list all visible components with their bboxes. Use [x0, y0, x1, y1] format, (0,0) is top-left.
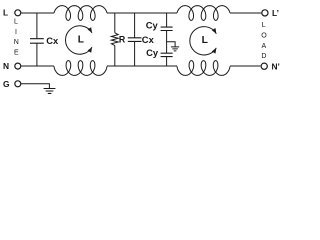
svg-text:O: O: [261, 33, 267, 40]
svg-text:E: E: [14, 50, 19, 57]
wire: [166, 13, 168, 27]
wire: [21, 65, 54, 67]
terminal L': [262, 10, 268, 16]
svg-text:N: N: [3, 61, 9, 71]
inductor winding L2 bottom: [177, 61, 230, 76]
svg-text:L: L: [202, 35, 208, 46]
terminal N': [261, 63, 267, 69]
capacitor Cx1: [30, 39, 44, 44]
capacitor Cy upper: [161, 27, 173, 30]
svg-text:L: L: [3, 8, 8, 18]
inductor winding L1 bottom: [54, 61, 107, 76]
wire: [21, 12, 54, 14]
ground (G): [44, 89, 56, 94]
svg-text:L: L: [14, 18, 18, 25]
inductor winding L2 top: [177, 6, 230, 21]
svg-text:I: I: [15, 29, 17, 36]
svg-text:A: A: [262, 43, 267, 50]
wire: [166, 31, 168, 54]
svg-text:L: L: [262, 22, 266, 29]
wire: [36, 13, 38, 39]
capacitor Cx2: [128, 38, 142, 42]
wire: [230, 65, 260, 67]
svg-text:D: D: [261, 53, 266, 60]
svg-text:L’: L’: [272, 8, 279, 18]
svg-text:G: G: [3, 79, 10, 89]
wire: [134, 41, 136, 66]
svg-text:N: N: [14, 39, 19, 46]
svg-text:N’: N’: [272, 62, 280, 72]
terminal L: [15, 10, 21, 16]
wire to ground: [167, 42, 176, 47]
wire: [134, 13, 136, 38]
terminal N: [15, 63, 21, 69]
wire bottom rail mid: [107, 65, 177, 67]
svg-text:Cx: Cx: [46, 35, 59, 46]
svg-text:L: L: [78, 34, 84, 45]
wire: [230, 12, 261, 14]
ground (Cy midpoint): [171, 47, 179, 51]
svg-text:Cx: Cx: [142, 34, 155, 45]
terminal G: [15, 81, 21, 87]
resistor R: [111, 33, 118, 46]
wire: [114, 13, 116, 33]
wire: [21, 84, 49, 89]
choke arrow L1: [66, 26, 92, 54]
choke arrow L2: [190, 27, 216, 55]
wire: [166, 57, 168, 66]
wire top rail mid: [107, 12, 177, 14]
capacitor Cy lower: [161, 53, 173, 56]
inductor winding L1 top: [54, 6, 107, 21]
wire: [114, 46, 116, 66]
svg-text:Cy: Cy: [146, 20, 159, 31]
svg-text:R: R: [119, 34, 126, 44]
wire: [36, 43, 38, 66]
svg-text:Cy: Cy: [146, 47, 159, 58]
